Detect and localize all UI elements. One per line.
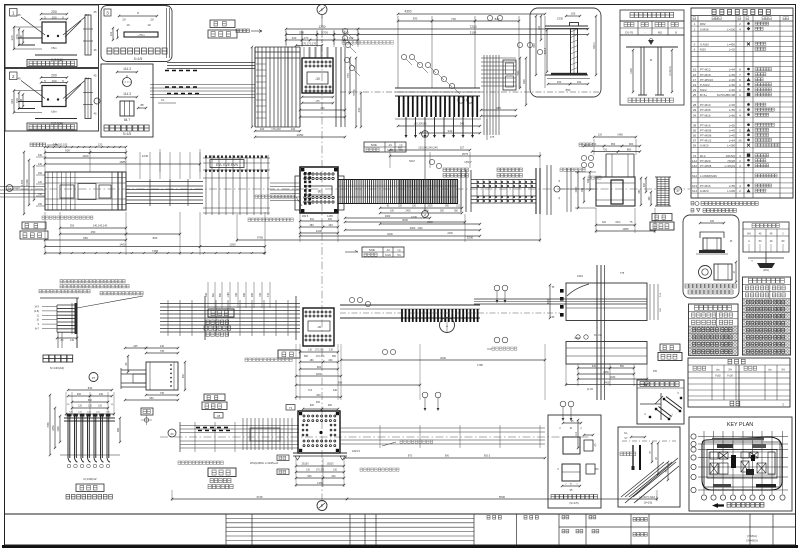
svg-text:2400: 2400 — [405, 211, 411, 213]
marker circle E bottom — [317, 501, 327, 511]
svg-text:(2): (2) — [595, 443, 597, 446]
tenba notch detail box — [101, 64, 153, 137]
column small dims — [303, 47, 305, 58]
svg-text:860: 860 — [627, 147, 632, 151]
svg-text:240: 240 — [99, 393, 104, 396]
svg-text:280: 280 — [321, 107, 326, 110]
center connection rib lines — [205, 155, 207, 215]
svg-text:320: 320 — [328, 218, 333, 221]
column right dims — [335, 47, 337, 127]
svg-text:20: 20 — [122, 18, 126, 22]
lower splice plate — [303, 308, 334, 346]
svg-text:1366: 1366 — [317, 481, 323, 485]
svg-text:9765: 9765 — [257, 236, 264, 240]
svg-text:950: 950 — [611, 142, 616, 146]
svg-text:74: 74 — [693, 154, 697, 158]
column elevation C-plane — [257, 47, 259, 127]
svg-text:775: 775 — [620, 271, 625, 275]
footing anchor comb — [64, 417, 115, 419]
svg-text:3000: 3000 — [410, 227, 416, 230]
svg-text:823.5: 823.5 — [543, 47, 547, 54]
svg-text:17: 17 — [693, 78, 697, 82]
svg-text:1065: 1065 — [57, 426, 60, 432]
svg-text:760: 760 — [581, 187, 584, 192]
svg-text:960: 960 — [149, 397, 154, 400]
svg-text:800: 800 — [332, 355, 337, 358]
svg-text:61%: 61% — [615, 221, 621, 224]
svg-text:14.9: 14.9 — [34, 306, 39, 309]
svg-text:180: 180 — [205, 292, 208, 297]
label C-plane gaikanzu — [22, 222, 46, 229]
svg-text:1824.5: 1824.5 — [352, 449, 360, 453]
svg-text:165: 165 — [710, 220, 715, 223]
svg-text:1200: 1200 — [316, 229, 323, 233]
grid centerline vertical — [321, 15, 323, 505]
bottom plan splice plate — [298, 411, 340, 453]
svg-text:10: 10 — [693, 68, 697, 72]
svg-text:5447: 5447 — [409, 159, 415, 163]
svg-text:120: 120 — [598, 134, 603, 137]
svg-text:200: 200 — [292, 36, 297, 40]
svg-text:1630: 1630 — [610, 376, 616, 379]
svg-text:430: 430 — [328, 359, 333, 362]
svg-text:160: 160 — [648, 196, 651, 201]
anchor bolt load table — [620, 10, 684, 21]
left beam stubs upper — [167, 62, 255, 64]
svg-text:100/5(6: 100/5(6 — [726, 154, 736, 158]
svg-text:-1C: -1C — [386, 248, 390, 252]
svg-text:700: 700 — [451, 17, 456, 21]
svg-text:25|150: 25|150 — [302, 464, 310, 466]
svg-text:Z: Z — [424, 213, 426, 217]
cotter note arrow — [236, 29, 239, 33]
svg-text:25: 25 — [693, 93, 697, 97]
svg-text:10: 10 — [126, 23, 130, 27]
svg-text:PT-M1/2: PT-M1/2 — [700, 139, 712, 143]
rounded box kabe-cotter detail — [101, 6, 172, 62]
svg-text:906: 906 — [243, 292, 246, 297]
svg-text:125,300(15: 125,300(15 — [413, 122, 427, 126]
svg-text:-: - — [740, 123, 741, 127]
notes above ladder — [443, 168, 446, 172]
svg-text:180: 180 — [309, 223, 314, 227]
svg-text:3000: 3000 — [402, 218, 408, 222]
svg-text:455: 455 — [653, 370, 658, 373]
key plan — [689, 417, 792, 511]
svg-text:114.3: 114.3 — [123, 67, 131, 71]
svg-text:8%: 8% — [595, 469, 598, 471]
svg-text:57: 57 — [693, 139, 697, 143]
sheet bottom heavy border — [2, 545, 798, 548]
panel section E — [566, 283, 647, 321]
svg-text:1100: 1100 — [629, 68, 633, 74]
svg-text:852: 852 — [219, 292, 222, 297]
svg-text:7065: 7065 — [47, 422, 50, 428]
svg-text:Z: Z — [424, 133, 426, 137]
svg-text:C8: C8 — [217, 414, 221, 418]
svg-text:0-M20: 0-M20 — [700, 144, 709, 148]
label shita-menzu — [208, 468, 236, 477]
svg-text:327: 327 — [460, 146, 465, 150]
svg-text:-: - — [740, 103, 741, 107]
svg-text:120: 120 — [537, 25, 541, 30]
svg-text:142: 142 — [692, 159, 697, 163]
svg-text:840: 840 — [88, 386, 93, 390]
col lines right of ladder-end — [546, 165, 548, 215]
svg-text:2000: 2000 — [427, 206, 433, 208]
deck type table upper — [364, 142, 406, 152]
svg-text:600: 600 — [310, 404, 315, 407]
svg-text:120: 120 — [38, 181, 43, 184]
base support detail box — [548, 415, 601, 508]
svg-text:800: 800 — [88, 399, 93, 402]
left lower beam stub lines — [0, 186, 45, 188]
svg-text:240: 240 — [333, 389, 338, 392]
svg-text:1200: 1200 — [316, 372, 322, 376]
svg-text:390: 390 — [413, 17, 418, 21]
svg-text:FL: FL — [161, 98, 165, 102]
svg-text:(/7M(A): (/7M(A) — [747, 534, 757, 538]
svg-text:900: 900 — [445, 455, 450, 458]
svg-text:PT-M5/8: PT-M5/8 — [700, 128, 712, 132]
svg-text:150: 150 — [38, 203, 43, 206]
svg-text:326: 326 — [10, 99, 14, 104]
svg-text:520b: 520b — [371, 143, 378, 147]
connection bolt rows — [205, 156, 207, 158]
svg-text:L=55: L=55 — [729, 108, 736, 112]
marker S left — [554, 186, 560, 192]
svg-text:940: 940 — [592, 365, 597, 368]
marker circle e7 right — [674, 187, 682, 195]
svg-text:700: 700 — [323, 30, 328, 34]
beam with hanging anchor bolts — [395, 87, 480, 89]
svg-text:2575: 2575 — [462, 152, 469, 156]
svg-text:150: 150 — [557, 80, 562, 84]
marker circle e7 left — [89, 373, 98, 382]
svg-text:8+7: 8+7 — [35, 328, 40, 331]
svg-text:(1): (1) — [398, 249, 401, 252]
anchor plate top view (column) — [302, 58, 333, 93]
svg-text:150|25: 150|25 — [327, 464, 335, 466]
svg-text:430: 430 — [38, 163, 43, 166]
balloon pair at panel lower — [494, 337, 500, 343]
svg-text:905: 905 — [251, 292, 254, 297]
svg-text:350: 350 — [70, 224, 75, 228]
svg-text:M2: M2 — [658, 31, 662, 35]
marker Fa circle — [6, 185, 13, 192]
svg-text:170,170: 170,170 — [316, 355, 325, 358]
svg-text:130: 130 — [329, 349, 334, 352]
svg-text:84.7: 84.7 — [124, 118, 130, 122]
svg-text:5500: 5500 — [499, 495, 506, 499]
svg-text:114.3: 114.3 — [123, 92, 131, 96]
svg-text:E: E — [321, 504, 323, 508]
svg-text:L=2848(M26: L=2848(M26 — [700, 174, 717, 178]
svg-text:(2-8): (2-8) — [34, 310, 39, 313]
svg-text:170,170,170: 170,170,170 — [302, 41, 317, 45]
central column between panels — [596, 265, 598, 400]
svg-text:S=1/5: S=1/5 — [134, 57, 143, 61]
svg-text:26: 26 — [738, 139, 742, 143]
svg-text:170: 170 — [304, 36, 309, 40]
svg-text:28: 28 — [693, 103, 697, 107]
parts list notes — [695, 202, 699, 206]
svg-text:RJ =43: RJ =43 — [594, 334, 602, 337]
svg-text:945: 945 — [307, 475, 312, 478]
section view dims — [584, 145, 604, 147]
svg-text:460: 460 — [77, 393, 82, 396]
svg-text:2050: 2050 — [297, 133, 304, 137]
svg-text:M1/2: M1/2 — [700, 88, 707, 92]
svg-text:180: 180 — [309, 359, 314, 362]
svg-text:160: 160 — [259, 292, 262, 297]
svg-text:19: 19 — [693, 83, 697, 87]
svg-text:860: 860 — [153, 236, 158, 240]
svg-text:200: 200 — [349, 36, 354, 40]
svg-text:t(m: t(m — [768, 369, 772, 372]
svg-text:PT-M10: PT-M10 — [700, 103, 711, 107]
svg-text:326: 326 — [10, 35, 14, 40]
svg-text:56: 56 — [693, 134, 697, 138]
svg-text:L=40: L=40 — [729, 88, 736, 92]
svg-text:960: 960 — [522, 79, 526, 84]
detail box S30b cotter — [5, 69, 99, 132]
leader note right of plate — [400, 440, 403, 443]
svg-text:20: 20 — [150, 18, 154, 22]
axis centerline horizontal — [6, 188, 690, 190]
svg-text:±5m: ±5m — [51, 46, 57, 50]
svg-text:940: 940 — [448, 129, 453, 133]
L-SOY-N16 detail box — [618, 427, 680, 507]
svg-text:(1/10(A): (1/10(A) — [51, 122, 63, 126]
marker e3 circle — [168, 429, 176, 437]
svg-text:1500: 1500 — [423, 211, 429, 213]
circled pair mid — [382, 349, 387, 354]
central bolted splice plate — [300, 167, 338, 213]
svg-text:45: 45 — [93, 10, 97, 14]
concrete strength table right — [743, 277, 791, 355]
vertical dim pair right of rounded box — [166, 8, 168, 58]
svg-text:L=45: L=45 — [729, 103, 736, 107]
svg-text:-: - — [740, 42, 741, 46]
beam plan top dims — [398, 13, 545, 15]
svg-text:(110x10): (110x10) — [669, 66, 672, 75]
svg-text:PT-M5/8: PT-M5/8 — [700, 164, 712, 168]
svg-text:540: 540 — [460, 122, 465, 126]
bottom plan beam left — [180, 425, 299, 427]
column top dims — [286, 28, 358, 30]
svg-text:L=45(32: L=45(32 — [725, 164, 736, 168]
balloon pair at panel — [494, 285, 500, 291]
svg-text:-30: -30 — [317, 325, 322, 329]
note 1-koume insert — [342, 41, 345, 45]
label S20a — [27, 60, 77, 67]
svg-text:965: 965 — [117, 427, 120, 432]
svg-text:1465: 1465 — [617, 134, 623, 137]
svg-text:713: 713 — [308, 389, 313, 392]
label ue-zenzu — [208, 309, 234, 317]
svg-text:1185: 1185 — [227, 292, 230, 298]
svg-text:S=1/40(A3): S=1/40(A3) — [50, 366, 64, 370]
svg-text:250: 250 — [299, 30, 304, 34]
svg-text:L=200: L=200 — [727, 27, 735, 31]
label A-part — [43, 355, 49, 362]
svg-text:600: 600 — [316, 394, 321, 397]
svg-text:140,140,140: 140,140,140 — [93, 224, 108, 228]
svg-text:570: 570 — [346, 73, 350, 78]
svg-text:46: 46 — [93, 48, 97, 52]
footing top dims — [68, 389, 112, 391]
weld leader note — [255, 195, 258, 198]
svg-text:WG(H)684C L=0235+24: WG(H)684C L=0235+24 — [250, 461, 279, 465]
svg-text:L=64: L=64 — [729, 68, 736, 72]
svg-text:~70m: ~70m — [137, 33, 145, 37]
dims 120-1465 above section — [594, 136, 636, 138]
C-plane beam elevation body — [45, 172, 126, 210]
svg-text:5776: 5776 — [352, 89, 356, 96]
svg-text:1900: 1900 — [575, 187, 578, 193]
svg-text:613: 613 — [692, 184, 697, 188]
svg-text:850: 850 — [620, 365, 625, 368]
svg-text:#7: #7 — [92, 376, 96, 380]
svg-text:( L-SOY-N16 ): ( L-SOY-N16 ) — [639, 495, 657, 499]
svg-text:900: 900 — [182, 373, 185, 378]
svg-text:520b: 520b — [369, 248, 376, 252]
svg-text:540: 540 — [38, 154, 43, 157]
label kouhai box — [278, 350, 300, 358]
label F-plane danmen — [660, 344, 680, 351]
svg-text:PT-M16: PT-M16 — [700, 123, 711, 127]
svg-text:L=280: L=280 — [727, 144, 735, 148]
svg-text:1100: 1100 — [417, 227, 423, 230]
svg-text:L=45: L=45 — [729, 134, 736, 138]
svg-text:0-M20: 0-M20 — [700, 189, 709, 193]
title block — [516, 514, 518, 545]
svg-text:(1): (1) — [400, 144, 403, 147]
svg-text:1650: 1650 — [52, 425, 55, 431]
svg-text:(/N#500): (/N#500) — [746, 539, 758, 543]
small boxed marks — [277, 455, 289, 461]
svg-text:F(1/40)42: F(1/40)42 — [83, 477, 96, 481]
svg-text:200: 200 — [51, 10, 57, 14]
svg-text:t(m: t(m — [716, 369, 720, 372]
svg-text:FL: FL — [624, 431, 628, 435]
A-part enlarged ladder — [40, 297, 79, 299]
svg-text:(25L): (25L) — [763, 269, 769, 272]
parts list table (sakizuke parts) — [691, 8, 793, 198]
upper notes 3 lines — [60, 280, 63, 283]
svg-text:162: 162 — [109, 31, 113, 36]
svg-text:1(51)7: 1(51)7 — [464, 160, 472, 164]
svg-text:(50)(8: (50)(8 — [728, 159, 736, 163]
beam web lines to center — [126, 181, 203, 183]
svg-text:1240: 1240 — [142, 154, 149, 158]
svg-text:140: 140 — [70, 339, 75, 342]
note FT line — [248, 218, 251, 221]
svg-text:L=60: L=60 — [729, 83, 736, 87]
svg-text:182: 182 — [692, 164, 697, 168]
svg-text:#7: #7 — [676, 189, 680, 193]
suction hose detail box — [683, 215, 739, 298]
comb bottom dims — [398, 125, 480, 127]
svg-text:120,240,240,240: 120,240,240,240 — [418, 146, 438, 150]
svg-text:0-M36: 0-M36 — [700, 27, 709, 31]
small circle phi — [94, 98, 100, 104]
svg-text:875: 875 — [408, 455, 413, 458]
svg-text:L=20: L=20 — [729, 48, 736, 52]
svg-text:D82: D82 — [700, 22, 706, 26]
svg-text:1400: 1400 — [82, 154, 89, 158]
svg-text:170,170: 170,170 — [315, 349, 324, 352]
svg-text:L=65: L=65 — [729, 73, 736, 77]
deck ladder beam — [338, 179, 400, 181]
rotated dim texts row — [207, 282, 209, 308]
svg-text:600: 600 — [532, 43, 536, 48]
svg-text:34: 34 — [693, 113, 697, 117]
svg-text:C6-76: C6-76 — [625, 31, 634, 35]
leader balloon circles — [342, 28, 347, 33]
svg-text:-30: -30 — [315, 77, 320, 81]
svg-text:450: 450 — [91, 230, 96, 234]
svg-text:900.1: 900.1 — [592, 42, 596, 49]
svg-text:#3: #3 — [170, 432, 174, 436]
svg-text:6,960: 6,960 — [25, 179, 29, 186]
svg-text:430: 430 — [328, 223, 333, 227]
svg-text:600: 600 — [316, 401, 321, 404]
svg-text:PT-M16: PT-M16 — [700, 113, 711, 117]
svg-text:-: - — [740, 144, 741, 148]
svg-text:182.5: 182.5 — [302, 214, 309, 218]
svg-text:1000: 1000 — [411, 215, 417, 219]
svg-text:120: 120 — [602, 221, 607, 224]
svg-text:55: 55 — [693, 128, 697, 132]
svg-text:1580: 1580 — [603, 371, 609, 374]
svg-text:PT-M12: PT-M12 — [700, 68, 711, 72]
svg-text:(S=1/5): (S=1/5) — [644, 501, 653, 505]
leader balloons right — [487, 15, 492, 20]
beam right connection — [483, 55, 485, 135]
svg-text:1964: 1964 — [577, 274, 583, 278]
bracket detail — [125, 347, 146, 349]
svg-text:38: 38 — [693, 123, 697, 127]
svg-text:46: 46 — [93, 112, 97, 116]
section view E-col — [605, 154, 607, 177]
cotter note left — [30, 143, 33, 147]
svg-text:Fc82: Fc82 — [715, 375, 721, 378]
column bottom dims — [255, 130, 300, 132]
label G-plane — [204, 394, 225, 401]
svg-text:110: 110 — [575, 431, 578, 435]
svg-text:735: 735 — [160, 350, 165, 353]
svg-text:960: 960 — [317, 365, 322, 369]
panel section F — [566, 342, 647, 365]
svg-text:M20: M20 — [700, 48, 706, 52]
svg-text:2500: 2500 — [427, 221, 433, 224]
member summary table — [688, 358, 790, 407]
svg-text:170,170: 170,170 — [316, 470, 325, 472]
svg-text:430: 430 — [357, 107, 361, 112]
anchor bolt drawing — [620, 35, 684, 105]
svg-text:450: 450 — [38, 172, 43, 175]
svg-text:E: E — [321, 8, 323, 12]
svg-text:300: 300 — [643, 182, 646, 187]
svg-text:385: 385 — [496, 106, 501, 110]
svg-text:45: 45 — [17, 13, 21, 17]
weight symbol drawing — [748, 257, 784, 259]
svg-text:1400: 1400 — [119, 242, 126, 246]
svg-text:±5m: ±5m — [51, 110, 57, 114]
svg-text:1050: 1050 — [229, 242, 236, 246]
